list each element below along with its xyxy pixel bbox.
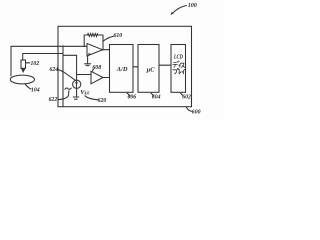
- svg-text:µC: µC: [146, 66, 156, 73]
- svg-text:602: 602: [182, 95, 191, 101]
- svg-text:100: 100: [188, 3, 197, 9]
- svg-text:LCD: LCD: [173, 54, 183, 61]
- svg-text:102: 102: [31, 61, 40, 67]
- svg-text:610: 610: [114, 33, 123, 39]
- svg-text:606: 606: [128, 95, 137, 101]
- svg-text:104: 104: [31, 87, 40, 93]
- svg-text:BAT: BAT: [84, 91, 90, 96]
- svg-text:600: 600: [192, 110, 201, 116]
- svg-text:620: 620: [98, 98, 107, 104]
- svg-text:622: 622: [49, 97, 58, 103]
- svg-text:608: 608: [92, 65, 101, 71]
- svg-text:624: 624: [50, 67, 59, 73]
- svg-text:604: 604: [152, 95, 161, 101]
- svg-text:A/D: A/D: [116, 66, 128, 73]
